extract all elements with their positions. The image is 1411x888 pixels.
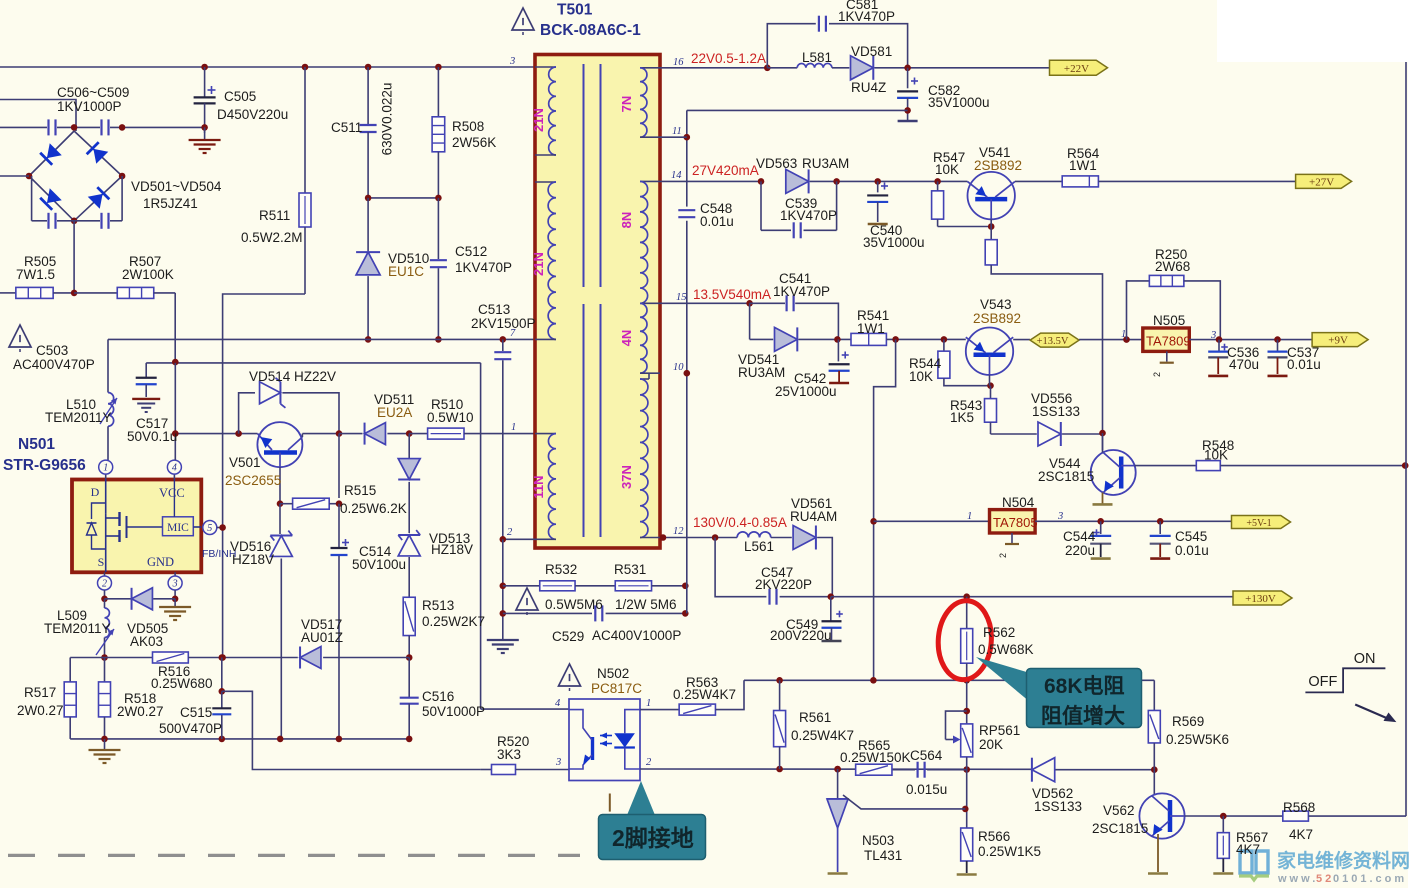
svg-text:V501: V501 [229,455,261,470]
svg-text:3: 3 [555,757,561,768]
svg-text:TA7809: TA7809 [1146,334,1191,349]
svg-text:TEM2011Y: TEM2011Y [44,621,111,636]
svg-text:35V1000u: 35V1000u [863,235,925,250]
IC N504 TA7805 [870,518,877,525]
ON OFF switch symbol [1305,668,1385,692]
svg-text:2W56K: 2W56K [452,135,496,150]
IC N501 STR-G9656 body [72,480,201,573]
wire R507 down to VCC node [174,293,176,362]
svg-text:4K7: 4K7 [1236,842,1260,857]
capacitor C549 [830,597,832,621]
wire secondary return vertical [686,110,688,206]
capacitor C511 with snubber [365,64,372,71]
svg-text:1: 1 [511,422,516,433]
svg-text:50V0.1u: 50V0.1u [127,429,177,444]
svg-text:1KV470P: 1KV470P [773,284,830,299]
svg-text:N504: N504 [1002,495,1035,510]
svg-text:7W1.5: 7W1.5 [16,267,55,282]
capacitor C537 [1277,340,1279,352]
N502 LED [625,710,640,734]
wire RP561 bottom to R566 [966,770,968,828]
resistor R517 [69,658,71,682]
ground pin2 chain [502,539,504,640]
wire N504 out [1035,520,1231,522]
wire pin16 [660,67,767,69]
N501 body diode [92,503,106,519]
callout 68K resistor [976,657,1030,702]
node snubber right [435,195,442,202]
transistor V562 2SC1815 [1153,770,1155,796]
wire V501 base rail [175,433,257,435]
N501 pin 3 [174,572,176,576]
svg-text:1/2W 5M6: 1/2W 5M6 [615,597,677,612]
svg-text:4: 4 [555,698,561,709]
resistor R510 [409,433,427,435]
svg-text:VCC: VCC [159,486,185,500]
svg-text:4K7: 4K7 [1289,827,1313,842]
svg-text:C515: C515 [180,705,212,720]
capacitor C513 [500,336,507,343]
wire V543 emitter node [987,382,994,389]
winding primary 21N upper [535,66,556,68]
wire R562 to RP561 [966,680,968,724]
transformer core [583,64,585,287]
svg-text:2: 2 [507,527,513,538]
svg-text:2: 2 [1152,372,1162,377]
svg-text:C544: C544 [1063,529,1096,544]
svg-text:HZ18V: HZ18V [232,552,274,567]
resistor R544 [943,339,945,351]
svg-text:2W68: 2W68 [1155,259,1190,274]
wire bridge left stub [0,175,29,177]
resistor R541 [851,333,886,345]
svg-text:50V100u: 50V100u [352,557,406,572]
svg-text:2: 2 [646,757,652,768]
wire R511 feed vertical down to FB node [222,434,224,658]
capacitor C509 [100,213,102,229]
white corner region [1217,0,1411,62]
svg-text:2W0.27: 2W0.27 [117,704,164,719]
warning triangle C503 [9,325,31,347]
diode VD561 RU4AM [793,526,816,550]
svg-text:1KV470P: 1KV470P [455,260,512,275]
svg-text:C545: C545 [1175,529,1207,544]
wire cap row [0,126,47,128]
capacitor C564 [916,762,918,778]
wire pin12 [660,537,737,539]
wire opto pin2 rail [640,768,1031,770]
svg-text:R562: R562 [983,625,1015,640]
svg-text:0.25W6.2K: 0.25W6.2K [340,501,407,516]
shunt regulator N503 TL431 [837,769,839,799]
node R505-R507 [71,290,78,297]
zener VD514 HZ22V [239,393,255,434]
capacitor C581 loop [767,24,816,68]
resistor R543 [990,386,992,399]
inductor L510 [107,339,109,392]
wire 130V rail [831,596,1233,598]
svg-text:1: 1 [967,511,972,522]
resistor R568 [1283,811,1309,821]
svg-text:3: 3 [172,579,178,590]
svg-text:2SC2655: 2SC2655 [225,473,281,488]
svg-text:2SB892: 2SB892 [973,311,1021,326]
node bridge left [26,173,33,180]
wire pin4 riser [174,363,176,460]
svg-text:C503: C503 [36,343,68,358]
svg-text:1: 1 [103,463,108,474]
resistor R569 [1153,680,1155,710]
wire V501 collector out [301,434,303,437]
svg-text:R568: R568 [1283,800,1315,815]
svg-text:HZ18V: HZ18V [431,542,473,557]
svg-text:4N: 4N [619,330,634,347]
svg-text:+27V: +27V [1309,176,1334,188]
svg-text:R566: R566 [978,829,1010,844]
wire V562 base row [1185,815,1283,817]
svg-text:68K电阻: 68K电阻 [1044,675,1125,698]
wire V501 emitter chain [279,467,281,504]
svg-text:L561: L561 [744,539,774,554]
diode VD562 1SS133 [1032,758,1055,782]
svg-text:0.01u: 0.01u [700,214,734,229]
svg-text:R532: R532 [545,562,577,577]
svg-text:N503: N503 [862,833,894,848]
node bridge top [71,124,78,131]
transistor V501 2SC2655 [257,422,302,467]
zener VD513 HZ18V [398,535,420,556]
svg-text:10K: 10K [909,369,933,384]
svg-text:21N: 21N [531,108,546,132]
svg-text:0.25W2K7: 0.25W2K7 [422,614,485,629]
svg-text:13.5V540mA: 13.5V540mA [693,287,771,302]
svg-text:VD581: VD581 [851,44,892,59]
resistor R548 [1196,461,1220,471]
capacitor C545 [1159,521,1161,534]
svg-text:AK03: AK03 [130,634,163,649]
svg-text:R561: R561 [799,710,831,725]
svg-text:OFF: OFF [1308,674,1337,690]
diode VD556 1SS133 [991,433,1037,435]
winding secondary 8N [640,180,660,182]
svg-text:2KV1500P: 2KV1500P [471,316,536,331]
red circle annotation [936,599,994,682]
svg-text:0.25W1K5: 0.25W1K5 [978,844,1041,859]
svg-text:20K: 20K [979,737,1003,752]
svg-text:0.25W4K7: 0.25W4K7 [673,687,736,702]
svg-text:22V0.5-1.2A: 22V0.5-1.2A [691,51,766,66]
resistor R515 [293,498,330,509]
svg-text:2SB892: 2SB892 [974,158,1022,173]
wire V544 emitter [1102,493,1104,505]
svg-text:S: S [98,555,105,569]
svg-text:1SS133: 1SS133 [1034,799,1082,814]
wire R541 node down to N504 rail [874,339,896,680]
wire V541 collector out [1015,180,1062,182]
transistor V543 2SB892 [966,328,1013,375]
svg-text:500V470P: 500V470P [159,721,222,736]
resistor R562 circled [966,597,968,629]
svg-text:0.5W5M6: 0.5W5M6 [545,597,603,612]
resistor R520 [481,769,492,771]
svg-text:R511: R511 [259,208,290,223]
optocoupler N502 PC817C body [569,699,640,781]
svg-text:GND: GND [147,555,174,569]
wire V541 emitter to R546 [990,219,992,239]
svg-text:2KV220P: 2KV220P [755,577,812,592]
flag +13.5V [1013,339,1030,341]
svg-text:TL431: TL431 [864,848,902,863]
winding primary 21N lower [535,181,556,183]
svg-text:130V/0.4-0.85A: 130V/0.4-0.85A [693,515,787,530]
flag +5V-1 [1232,516,1291,529]
svg-text:+22V: +22V [1064,63,1089,75]
svg-text:0.5W68K: 0.5W68K [978,642,1034,657]
N504 ground pin 2 [1011,533,1013,543]
svg-text:VD501~VD504: VD501~VD504 [131,179,222,194]
svg-text:T501: T501 [557,2,593,19]
N501 internal MOSFET [105,480,107,514]
capacitor C547 [715,538,766,597]
svg-text:12: 12 [673,526,684,537]
wire pin15 [660,302,750,304]
svg-text:RU3AM: RU3AM [738,365,785,380]
diode VD563 RU3AM [786,169,809,193]
svg-text:+13.5V: +13.5V [1037,336,1069,347]
dashed separator [8,854,35,857]
wire 22V return to pin11 [687,109,908,111]
diode VD511 EU2A [339,433,363,435]
svg-text:7N: 7N [619,96,634,113]
wire bottom cap row [31,176,33,221]
svg-text:16: 16 [673,57,684,68]
svg-text:C516: C516 [422,689,454,704]
svg-text:C511: C511 [331,120,362,135]
resistor R505 [0,292,16,294]
wire R515 right node down [338,434,340,498]
wire pin11 [660,136,687,138]
resistor R564 [1062,176,1098,187]
ground C517 [132,398,160,400]
svg-text:27V420mA: 27V420mA [692,163,759,178]
svg-text:2脚接地: 2脚接地 [612,825,694,851]
node bridge bottom [71,218,78,225]
svg-text:3: 3 [1210,330,1216,341]
wire V562 emitter [1157,834,1159,872]
svg-text:RU3AM: RU3AM [802,156,849,171]
resistor R508 [435,64,442,71]
svg-text:0.25W680: 0.25W680 [151,676,213,691]
svg-text:R517: R517 [24,685,56,700]
svg-text:AU01Z: AU01Z [301,630,343,645]
resistor R511 startup [302,64,309,71]
flag +130V [1233,591,1292,605]
svg-text:EU1C: EU1C [388,264,424,279]
svg-text:家电维修资料网: 家电维修资料网 [1277,849,1410,872]
svg-text:0101.com: 0101.com [1333,873,1407,885]
resistor R567 [1222,816,1224,833]
diode VD510 EU1C [367,198,369,251]
capacitor C514 [342,542,349,544]
wire main top rail [0,66,535,68]
svg-text:RP561: RP561 [979,723,1020,738]
capacitor C539 loop [760,181,762,230]
svg-text:RU4AM: RU4AM [790,509,837,524]
svg-text:52: 52 [1316,873,1334,885]
svg-text:1KV470P: 1KV470P [780,208,837,223]
svg-text:0.25W150K: 0.25W150K [840,750,911,765]
svg-text:220u: 220u [1065,543,1095,558]
svg-text:11N: 11N [531,475,546,498]
wire pin2 [503,538,535,540]
N501 MIC block [163,517,194,536]
wire opto pin1 to R563 [640,709,679,711]
resistor R531 [615,581,651,591]
resistor R546 [985,240,997,265]
wire R511 jog left and down [223,294,305,434]
svg-text:R515: R515 [344,483,376,498]
svg-text:1SS133: 1SS133 [1032,404,1080,419]
transistor V544 2SC1815 [1091,450,1136,495]
winding secondary 4N [640,303,647,373]
capacitor C542 [837,339,839,361]
transformer T501 body [535,55,660,549]
svg-text:N501: N501 [18,436,55,453]
svg-text:11: 11 [672,126,682,137]
svg-text:R569: R569 [1172,714,1204,729]
capacitor C548 [678,209,695,211]
svg-text:1R5JZ41: 1R5JZ41 [143,196,198,211]
svg-text:3: 3 [1057,511,1063,522]
svg-text:1KV1000P: 1KV1000P [57,99,122,114]
wire C529 row [500,610,507,617]
capacitor C540 [874,178,881,185]
wire VCC drop to opto pin4 [480,363,482,709]
wire AC input upper [0,100,76,132]
svg-text:BCK-08A6C-1: BCK-08A6C-1 [540,22,641,39]
svg-text:0.5W10: 0.5W10 [427,410,474,425]
svg-text:L581: L581 [802,50,832,65]
svg-text:R508: R508 [452,119,484,134]
inductor L581 [767,67,797,69]
N501 pin 2 [104,572,106,576]
wire bottom return row [70,738,409,740]
wire V544 base to R548 [1135,465,1197,467]
wire R547 to emitter node [938,226,992,228]
resistor R516 [153,652,189,663]
potentiometer RP561 [961,724,973,757]
svg-text:2W0.27: 2W0.27 [17,703,64,718]
svg-text:EU2A: EU2A [377,405,412,420]
svg-text:0.25W5K6: 0.25W5K6 [1166,732,1229,747]
winding primary 11N [535,433,556,435]
capacitor C506 [47,119,49,135]
svg-text:0.01u: 0.01u [1287,357,1321,372]
svg-text:C529: C529 [552,629,584,644]
svg-text:STR-G9656: STR-G9656 [3,457,86,474]
N502 phototransistor [591,737,594,760]
svg-text:1K5: 1K5 [950,410,974,425]
wire snubber cross [368,197,438,199]
wire VCC rail [146,362,480,364]
svg-text:3: 3 [509,56,515,67]
capacitor C508 [47,213,49,229]
resistor R518 [104,658,106,682]
node snubber left [365,195,372,202]
wire C515 node to opto pin3 [222,691,481,769]
warning triangle N502 [559,664,581,686]
svg-text:D: D [91,485,100,499]
svg-text:0.25W4K7: 0.25W4K7 [791,728,854,743]
N501 pin 4 [173,474,175,480]
svg-text:N502: N502 [597,666,629,681]
resistor R561 [779,680,781,710]
svg-text:7: 7 [510,328,516,339]
svg-text:+5V-1: +5V-1 [1246,518,1271,529]
svg-text:200V220u: 200V220u [770,628,832,643]
svg-text:3K3: 3K3 [497,747,521,762]
resistor R507 [74,292,117,294]
resistor R250 [1149,275,1184,286]
svg-text:C505: C505 [224,89,256,104]
warning triangle R532 row [516,588,538,610]
inductor L561 [737,532,771,538]
capacitor C515 [219,654,226,661]
N502 LED arrows [600,735,612,737]
svg-text:ON: ON [1354,651,1376,667]
resistor R532 [540,581,575,591]
wire R546 to V544 collector [991,265,1102,450]
svg-text:阻值增大: 阻值增大 [1041,704,1125,728]
resistor R563 [679,704,715,715]
flag +9V [1312,333,1368,347]
node VCC C517 [172,359,179,366]
resistor R565 [834,766,841,773]
warning triangle T501 [512,8,534,30]
svg-text:0.015u: 0.015u [906,782,947,797]
svg-text:MIC: MIC [167,522,189,534]
svg-text:8N: 8N [619,212,634,229]
ground bottom row [104,739,106,750]
svg-text:V562: V562 [1103,803,1135,818]
svg-text:4: 4 [172,463,177,474]
wire FB row [70,657,104,659]
diode VD517 AU01Z [300,647,321,669]
svg-text:D450V220u: D450V220u [217,107,288,122]
inductor L509 [104,599,106,608]
svg-text:AC400V1000P: AC400V1000P [592,628,681,643]
capacitor C544 [1100,521,1102,534]
svg-text:2SC1815: 2SC1815 [1038,469,1094,484]
svg-text:TA7805: TA7805 [993,515,1038,530]
capacitor C582 [907,68,909,89]
watermark book icon [1240,851,1268,873]
svg-text:2: 2 [102,579,107,590]
node pin12 edge [660,534,667,541]
svg-text:V543: V543 [980,297,1012,312]
wire right edge vertical [1405,62,1407,816]
svg-text:470u: 470u [1229,357,1259,372]
svg-text:25V1000u: 25V1000u [775,384,837,399]
capacitor C536 [1218,340,1220,352]
svg-text:RU4Z: RU4Z [851,80,886,95]
svg-text:5: 5 [207,523,212,534]
svg-text:C564: C564 [910,748,943,763]
svg-text:14: 14 [671,170,682,181]
capacitor C507 [100,119,102,135]
diode VD581 RU4Z [851,56,874,80]
IC N505 TA7809 [1123,336,1130,343]
